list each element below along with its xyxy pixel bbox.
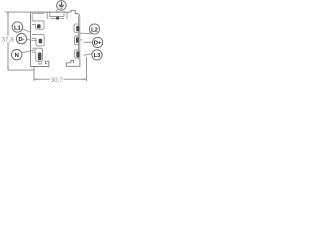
leader line N [21, 50, 36, 53]
svg-text:L2: L2 [91, 27, 99, 33]
svg-text:D+: D+ [94, 41, 102, 47]
dimension 37.8 extension line top [5, 11, 31, 13]
svg-text:L1: L1 [14, 25, 22, 31]
conductor L3 blob [76, 51, 79, 57]
label circle PE earth [57, 1, 67, 11]
label circle D+ [93, 37, 103, 47]
dimension 37.8 arrow bottom [7, 67, 9, 70]
track profile left wall [30, 13, 32, 67]
conductor D- blob [39, 39, 43, 44]
leader line D- [27, 40, 37, 41]
label circle L1 [12, 22, 22, 32]
svg-text:37,8: 37,8 [1, 37, 14, 44]
svg-text:30,7: 30,7 [51, 77, 64, 84]
dimension 30.7 dimension line [34, 78, 87, 80]
track profile right foot [66, 59, 80, 66]
leader line L3 [84, 54, 93, 56]
earth symbol [59, 2, 65, 8]
track profile earth strip [50, 12, 67, 19]
conductor pocket D+ [75, 36, 79, 45]
conductor D+ blob [76, 37, 79, 42]
leader line PE [56, 9, 58, 12]
dimension 30.7 arrow right [84, 78, 87, 80]
conductor pocket D- [32, 34, 44, 46]
earth conductor blob [56, 17, 59, 20]
dimension 30.7 extension line left [33, 67, 35, 82]
track profile right side tick [80, 39, 82, 41]
track profile inner top-left contour [32, 14, 44, 21]
track profile earth clip slot left [47, 12, 51, 19]
dimension 30.7 arrow left [34, 78, 37, 80]
dimension 30.7 extension line right [86, 57, 88, 81]
dimension 37.8 arrow top [7, 12, 9, 15]
conductor pocket L3 [75, 50, 79, 58]
conductor L1 blob [37, 24, 41, 28]
track profile left foot inner lip [39, 60, 42, 64]
track profile top edge [31, 12, 71, 13]
svg-text:L3: L3 [94, 53, 102, 59]
svg-text:D-: D- [18, 37, 24, 43]
conductor pocket L2 [74, 24, 78, 33]
leader line L1 [22, 29, 30, 32]
dimension 37.8 extension line bottom [8, 69, 34, 71]
label circle D- [16, 34, 26, 44]
svg-text:N: N [15, 53, 19, 59]
label circle L3 [92, 50, 102, 60]
conductor N blob [38, 53, 42, 61]
dimension 37.8 vertical dimension line [7, 12, 9, 70]
track profile right wall [78, 16, 79, 60]
conductor pocket L1 [32, 21, 44, 29]
conductor L2 blob [76, 26, 79, 31]
label circle L2 [89, 24, 99, 34]
dimension 37.8 text [1, 36, 15, 42]
conductor pocket N [32, 48, 42, 61]
leader line L2 [80, 32, 92, 35]
leader line D+ [84, 41, 93, 43]
track profile top-right tab [71, 10, 80, 16]
track profile left foot [31, 61, 49, 66]
label circle N [12, 50, 22, 60]
